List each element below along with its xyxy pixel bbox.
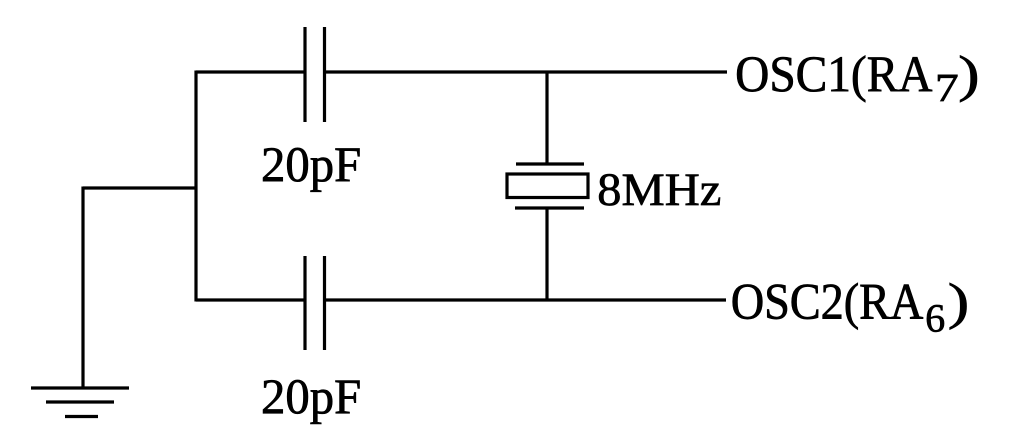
wire crystal bottom lead	[545, 208, 548, 300]
node OSC1(RA7)	[737, 56, 977, 103]
wire top net: capacitor C1 right plate to OSC1 pin	[326, 70, 728, 73]
wire bottom net: left bus to capacitor C2 left plate	[196, 298, 304, 301]
capacitor C1 value label 20pF	[263, 148, 359, 192]
crystal value label 8MHz	[599, 174, 720, 205]
node OSC2(RA6)	[733, 283, 967, 332]
capacitor C1 plates	[305, 27, 325, 122]
capacitor C2 plates	[305, 256, 325, 350]
wire ground branch vertical	[81, 187, 84, 389]
wire ground branch horizontal	[83, 186, 198, 189]
crystal X1 8MHz	[507, 164, 588, 208]
capacitor C2 value label 20pF	[263, 380, 359, 424]
ground	[31, 388, 129, 417]
wire bottom net: capacitor C2 right plate to OSC2 pin	[326, 298, 727, 301]
wire top net: left bus to capacitor C1 left plate	[196, 70, 304, 73]
wire left vertical bus	[194, 71, 197, 302]
wire crystal top lead	[545, 72, 548, 164]
